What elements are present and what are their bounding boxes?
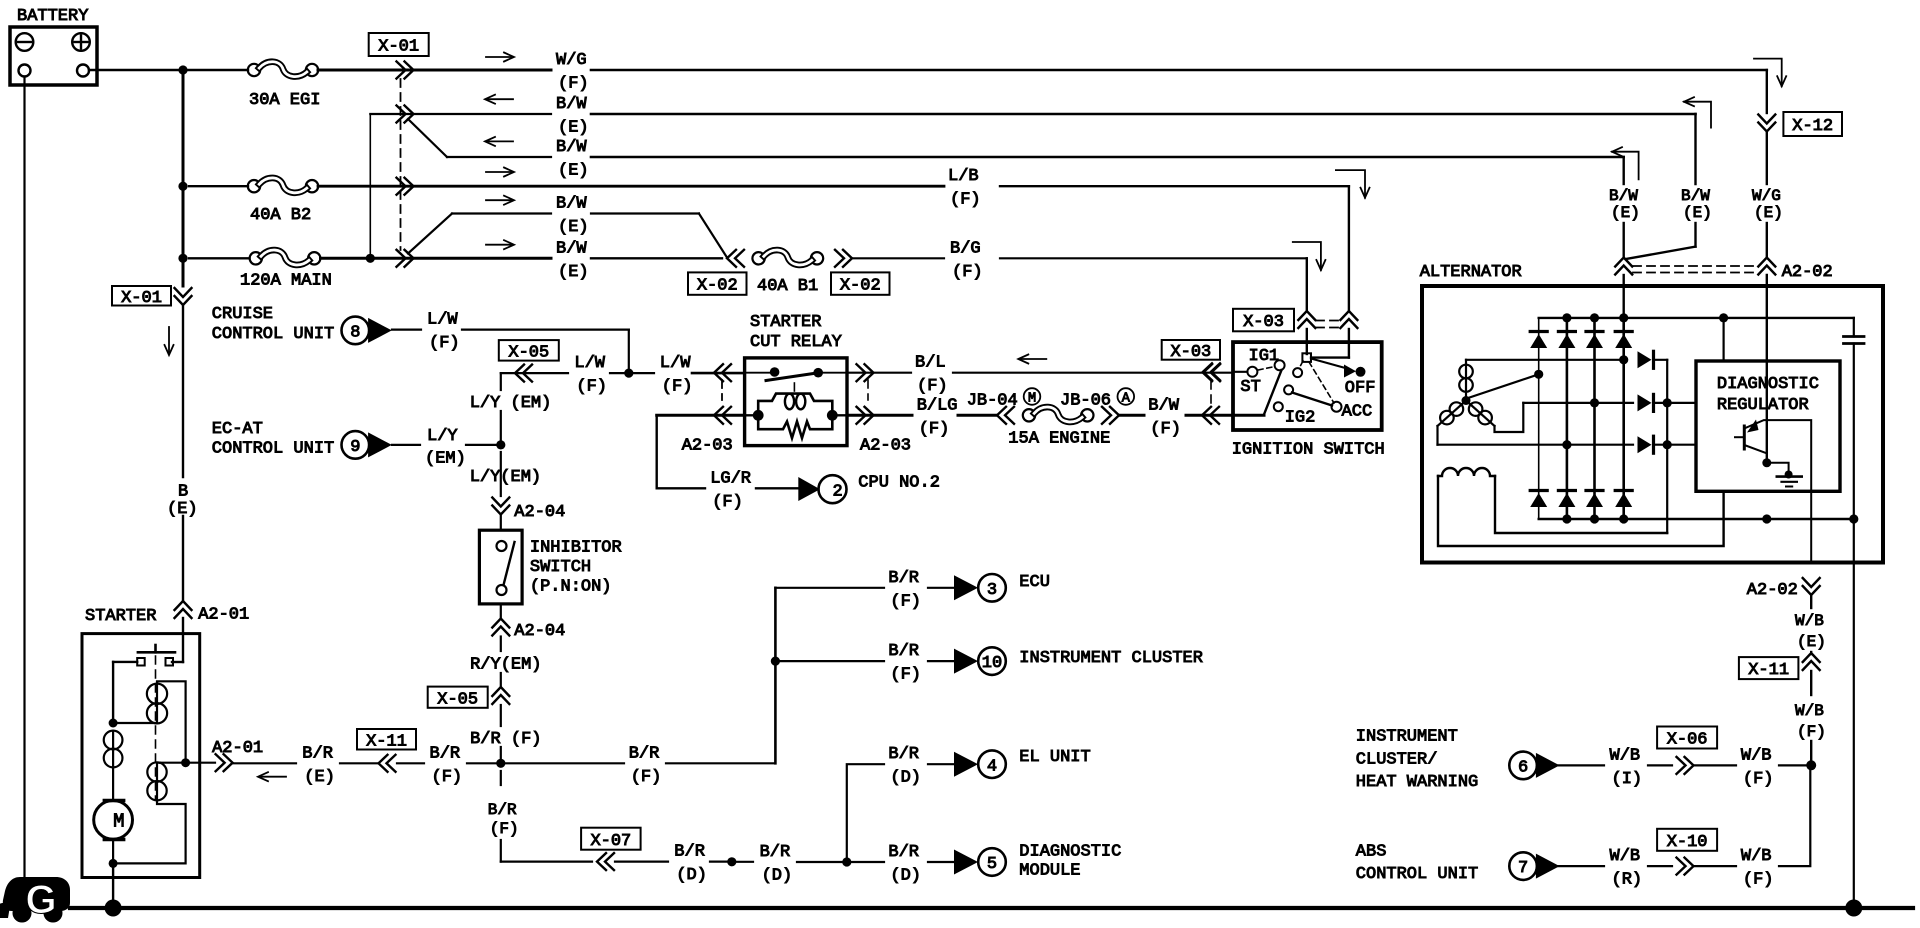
svg-text:HEAT WARNING: HEAT WARNING: [1356, 773, 1478, 792]
svg-text:(D): (D): [676, 866, 707, 885]
svg-text:A2-02: A2-02: [1747, 581, 1798, 600]
svg-text:MODULE: MODULE: [1019, 862, 1080, 881]
svg-text:STARTER: STARTER: [750, 313, 821, 332]
svg-text:X-11: X-11: [1748, 661, 1789, 680]
svg-text:(F): (F): [1797, 723, 1826, 741]
svg-text:B/R: B/R: [760, 843, 791, 862]
svg-text:W/G: W/G: [556, 51, 587, 70]
svg-text:A2-03: A2-03: [682, 437, 733, 456]
svg-text:3: 3: [987, 581, 997, 600]
svg-text:(F): (F): [712, 493, 743, 512]
svg-text:(F): (F): [890, 666, 921, 685]
svg-text:(F): (F): [917, 377, 948, 396]
svg-text:120A MAIN: 120A MAIN: [240, 272, 332, 291]
svg-text:(F): (F): [1743, 770, 1774, 789]
svg-text:W/B: W/B: [1610, 847, 1641, 866]
svg-text:X-03: X-03: [1170, 343, 1211, 362]
svg-text:2: 2: [833, 482, 843, 501]
svg-text:(F): (F): [432, 768, 463, 787]
svg-text:G: G: [25, 878, 56, 922]
svg-text:B/W: B/W: [556, 239, 587, 258]
svg-text:8: 8: [350, 324, 360, 343]
svg-text:A2-01: A2-01: [198, 605, 249, 624]
svg-text:6: 6: [1518, 759, 1528, 778]
svg-text:(E): (E): [1683, 204, 1712, 222]
svg-text:7: 7: [1518, 859, 1528, 878]
svg-text:B/LG: B/LG: [917, 396, 958, 415]
svg-text:X-02: X-02: [697, 277, 738, 296]
svg-text:M: M: [1028, 391, 1036, 406]
svg-text:CONTROL UNIT: CONTROL UNIT: [1356, 865, 1478, 884]
svg-text:(E): (E): [558, 162, 589, 181]
svg-text:X-05: X-05: [508, 343, 549, 362]
svg-text:(D): (D): [762, 866, 793, 885]
svg-text:B/L: B/L: [915, 354, 946, 373]
svg-text:SWITCH: SWITCH: [530, 558, 591, 577]
svg-text:R/Y(EM): R/Y(EM): [470, 656, 541, 675]
svg-text:(E): (E): [558, 263, 589, 282]
svg-text:EL UNIT: EL UNIT: [1019, 748, 1090, 767]
svg-text:OFF: OFF: [1345, 379, 1376, 398]
svg-text:(F): (F): [1150, 420, 1181, 439]
svg-text:X-01: X-01: [121, 289, 162, 308]
svg-text:INSTRUMENT: INSTRUMENT: [1356, 727, 1458, 746]
svg-text:JB-04: JB-04: [967, 392, 1018, 411]
svg-text:CRUISE: CRUISE: [212, 305, 273, 324]
svg-text:X-01: X-01: [378, 38, 419, 57]
svg-text:B/R: B/R: [888, 843, 919, 862]
svg-text:(EM): (EM): [425, 450, 466, 469]
svg-text:X-11: X-11: [366, 732, 407, 751]
svg-text:(I): (I): [1612, 770, 1643, 789]
svg-text:(E): (E): [558, 119, 589, 138]
svg-text:B/W: B/W: [1148, 396, 1179, 415]
svg-text:M: M: [113, 811, 124, 833]
svg-text:B/G: B/G: [950, 239, 981, 258]
svg-text:L/Y (EM): L/Y (EM): [470, 394, 552, 413]
svg-text:B/R: B/R: [302, 744, 333, 763]
svg-text:CONTROL UNIT: CONTROL UNIT: [212, 325, 334, 344]
svg-text:REGULATOR: REGULATOR: [1717, 396, 1809, 415]
svg-text:(F): (F): [631, 768, 662, 787]
svg-text:X-03: X-03: [1243, 313, 1284, 332]
svg-text:(E): (E): [1797, 633, 1826, 651]
svg-text:X-07: X-07: [590, 832, 631, 851]
svg-text:(E): (E): [558, 218, 589, 237]
svg-text:B: B: [178, 482, 188, 501]
svg-text:X-10: X-10: [1667, 833, 1708, 852]
svg-text:(F): (F): [1743, 871, 1774, 890]
svg-text:B/R: B/R: [674, 843, 705, 862]
svg-text:9: 9: [350, 438, 360, 457]
svg-text:5: 5: [987, 855, 997, 874]
svg-text:LG/R: LG/R: [710, 469, 751, 488]
svg-text:L/W: L/W: [660, 354, 691, 373]
svg-text:B/R: B/R: [430, 744, 461, 763]
svg-text:L/W: L/W: [427, 311, 458, 330]
svg-text:A2-01: A2-01: [212, 739, 263, 758]
svg-text:A2-04: A2-04: [514, 503, 565, 522]
svg-text:ECU: ECU: [1019, 573, 1050, 592]
svg-text:L/W: L/W: [574, 354, 605, 373]
svg-text:B/W: B/W: [1681, 187, 1710, 205]
svg-text:4: 4: [987, 757, 997, 776]
svg-text:B/W: B/W: [556, 138, 587, 157]
svg-text:(F): (F): [429, 334, 460, 353]
svg-text:L/B: L/B: [948, 167, 979, 186]
svg-text:CPU NO.2: CPU NO.2: [858, 474, 940, 493]
svg-text:B/R: B/R: [888, 642, 919, 661]
svg-text:(E): (E): [304, 768, 335, 787]
svg-text:A2-02: A2-02: [1782, 263, 1833, 282]
svg-text:B/R: B/R: [488, 801, 517, 819]
svg-text:ACC: ACC: [1342, 403, 1373, 422]
svg-text:B/R: B/R: [629, 744, 660, 763]
svg-text:B/R (F): B/R (F): [470, 730, 541, 749]
svg-text:15A ENGINE: 15A ENGINE: [1008, 430, 1110, 449]
svg-text:L/Y(EM): L/Y(EM): [470, 468, 541, 487]
svg-text:(F): (F): [919, 420, 950, 439]
svg-text:W/B: W/B: [1795, 612, 1824, 630]
svg-text:(P.N:ON): (P.N:ON): [530, 577, 612, 596]
svg-text:CONTROL UNIT: CONTROL UNIT: [212, 440, 334, 459]
svg-text:ALTERNATOR: ALTERNATOR: [1420, 263, 1522, 282]
svg-text:(F): (F): [490, 820, 519, 838]
svg-text:(D): (D): [890, 867, 921, 886]
svg-text:B/W: B/W: [556, 95, 587, 114]
svg-text:A: A: [1122, 391, 1131, 406]
svg-text:(F): (F): [890, 592, 921, 611]
svg-text:(F): (F): [662, 378, 693, 397]
svg-text:(F): (F): [576, 378, 607, 397]
svg-text:EC-AT: EC-AT: [212, 420, 263, 439]
svg-text:(F): (F): [950, 191, 981, 210]
svg-text:B/R: B/R: [888, 745, 919, 764]
svg-text:INSTRUMENT CLUSTER: INSTRUMENT CLUSTER: [1019, 649, 1203, 668]
svg-text:(R): (R): [1612, 871, 1643, 890]
svg-text:INHIBITOR: INHIBITOR: [530, 539, 622, 558]
svg-text:30A EGI: 30A EGI: [249, 91, 320, 110]
svg-text:W/G: W/G: [1752, 187, 1781, 205]
svg-text:X-02: X-02: [840, 277, 881, 296]
svg-text:W/B: W/B: [1610, 746, 1641, 765]
svg-text:W/B: W/B: [1795, 702, 1824, 720]
svg-text:(F): (F): [952, 263, 983, 282]
svg-text:L/Y: L/Y: [427, 427, 458, 446]
svg-text:40A B2: 40A B2: [250, 206, 311, 225]
svg-text:A2-03: A2-03: [860, 437, 911, 456]
svg-text:X-06: X-06: [1667, 731, 1708, 750]
svg-text:JB-06: JB-06: [1060, 392, 1111, 411]
svg-text:DIAGNOSTIC: DIAGNOSTIC: [1717, 375, 1819, 394]
svg-text:40A B1: 40A B1: [757, 277, 818, 296]
svg-text:STARTER: STARTER: [85, 607, 156, 626]
svg-text:BATTERY: BATTERY: [17, 7, 88, 26]
svg-text:ST: ST: [1240, 378, 1260, 397]
svg-text:W/B: W/B: [1741, 847, 1772, 866]
svg-text:10: 10: [982, 654, 1002, 673]
svg-text:(E): (E): [1611, 204, 1640, 222]
svg-text:(E): (E): [1754, 204, 1783, 222]
svg-text:A2-04: A2-04: [514, 622, 565, 641]
svg-text:IGNITION SWITCH: IGNITION SWITCH: [1232, 440, 1385, 459]
svg-text:X-05: X-05: [437, 690, 478, 709]
svg-text:X-12: X-12: [1792, 117, 1833, 136]
svg-text:(D): (D): [890, 769, 921, 788]
svg-text:CUT RELAY: CUT RELAY: [750, 333, 842, 352]
svg-text:DIAGNOSTIC: DIAGNOSTIC: [1019, 842, 1121, 861]
svg-text:W/B: W/B: [1741, 746, 1772, 765]
svg-text:B/R: B/R: [888, 569, 919, 588]
svg-text:IG2: IG2: [1285, 409, 1316, 428]
svg-text:CLUSTER/: CLUSTER/: [1356, 750, 1438, 769]
svg-text:B/W: B/W: [1609, 187, 1638, 205]
svg-text:B/W: B/W: [556, 195, 587, 214]
svg-text:ABS: ABS: [1356, 842, 1387, 861]
svg-text:(F): (F): [558, 75, 589, 94]
